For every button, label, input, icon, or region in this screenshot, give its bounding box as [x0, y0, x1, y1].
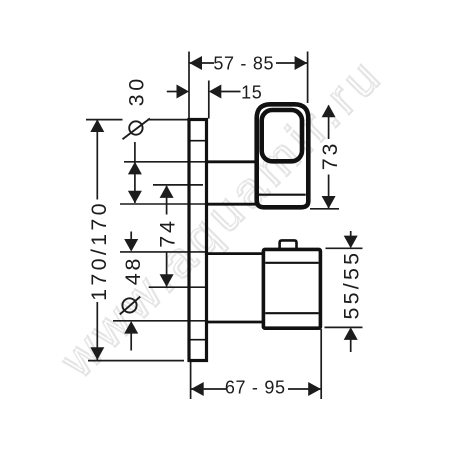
knob inner top line: [265, 262, 318, 264]
ext line top right (handle front): [307, 52, 309, 104]
knob stem bottom: [207, 321, 264, 324]
arrow d48 top (points down): [124, 239, 138, 252]
wall plate: [189, 120, 207, 361]
handle inner ring: [262, 110, 302, 161]
arrow 55 top (points down): [344, 236, 358, 249]
plate bevel bottom: [190, 339, 207, 341]
knob body: [263, 249, 320, 328]
arrow 57-85 right: [295, 56, 308, 70]
ext line stem bottom (d30 bottom): [120, 203, 207, 205]
diameter symbol for 48: [122, 298, 136, 312]
ext line 170 top: [86, 119, 123, 121]
svg-text:48: 48: [121, 256, 145, 286]
diameter symbol for 30: [129, 121, 142, 134]
arrow 73 up: [322, 105, 336, 118]
ext line 170 bottom: [88, 360, 184, 362]
dim line 170/170: [96, 120, 98, 200]
svg-text:170/170: 170/170: [87, 200, 111, 301]
svg-text:15: 15: [241, 83, 262, 103]
tail 55 top arrow: [350, 231, 352, 236]
knob inner bottom line: [265, 312, 318, 314]
ext line 15 right: [208, 81, 210, 119]
arrow 55 bottom (points up): [344, 327, 358, 340]
arrow 170 up: [90, 119, 104, 132]
arrow 15 right: [209, 85, 222, 99]
arrow 67-95 left: [191, 382, 204, 396]
plate bevel top: [190, 140, 207, 142]
dim line 73: [328, 106, 330, 140]
arrow 73 down: [322, 196, 336, 209]
dim line 67-95: [191, 388, 226, 390]
ext line d48 bottom: [113, 320, 207, 322]
ext line 74 top: [153, 184, 203, 186]
ext line stem top (d30 top): [124, 161, 207, 163]
arrow 57-85 left: [189, 56, 202, 70]
knob stem top: [207, 252, 264, 255]
upper stem bottom: [207, 203, 257, 206]
dim line 74: [166, 186, 168, 215]
tail d48 bottom arrow: [130, 333, 132, 351]
ext line 73 bottom: [310, 208, 339, 210]
dim line 57-85: [189, 62, 214, 64]
svg-text:55/55: 55/55: [340, 250, 364, 320]
ext line d48 top: [120, 251, 207, 253]
ext line 55 top: [326, 247, 363, 249]
arrow 15 left: [177, 85, 190, 99]
arrow d30 down: [128, 191, 142, 204]
ext line 74 bottom: [149, 286, 207, 288]
ext line 67-95 right: [320, 329, 322, 399]
dim line 15: [167, 91, 179, 93]
arrow 74 up: [160, 185, 174, 198]
svg-text:57 - 85: 57 - 85: [213, 53, 274, 73]
upper stem top: [207, 160, 257, 163]
dim line d30: [134, 142, 136, 203]
arrow 74 down: [160, 274, 174, 287]
ext line 55 bottom: [325, 326, 363, 328]
arrow d30 up: [128, 162, 142, 175]
svg-text:67 - 95: 67 - 95: [225, 378, 286, 398]
ext line 67-95 left: [190, 362, 192, 399]
arrow d48 bottom (points up): [124, 321, 138, 334]
tail d48 top arrow: [130, 232, 132, 240]
arrow 170 down: [90, 347, 104, 360]
knob tab: [280, 240, 297, 249]
svg-text:30: 30: [124, 75, 148, 106]
ext line top left (wall face): [188, 52, 190, 119]
handle base line: [259, 194, 306, 196]
watermark www.aquamir.ru: [48, 46, 394, 390]
handle outer: [257, 104, 309, 207]
tail 55 bottom arrow: [350, 340, 352, 353]
svg-text:74: 74: [156, 218, 180, 248]
svg-text:73: 73: [318, 141, 342, 171]
arrow 67-95 right: [308, 382, 321, 396]
